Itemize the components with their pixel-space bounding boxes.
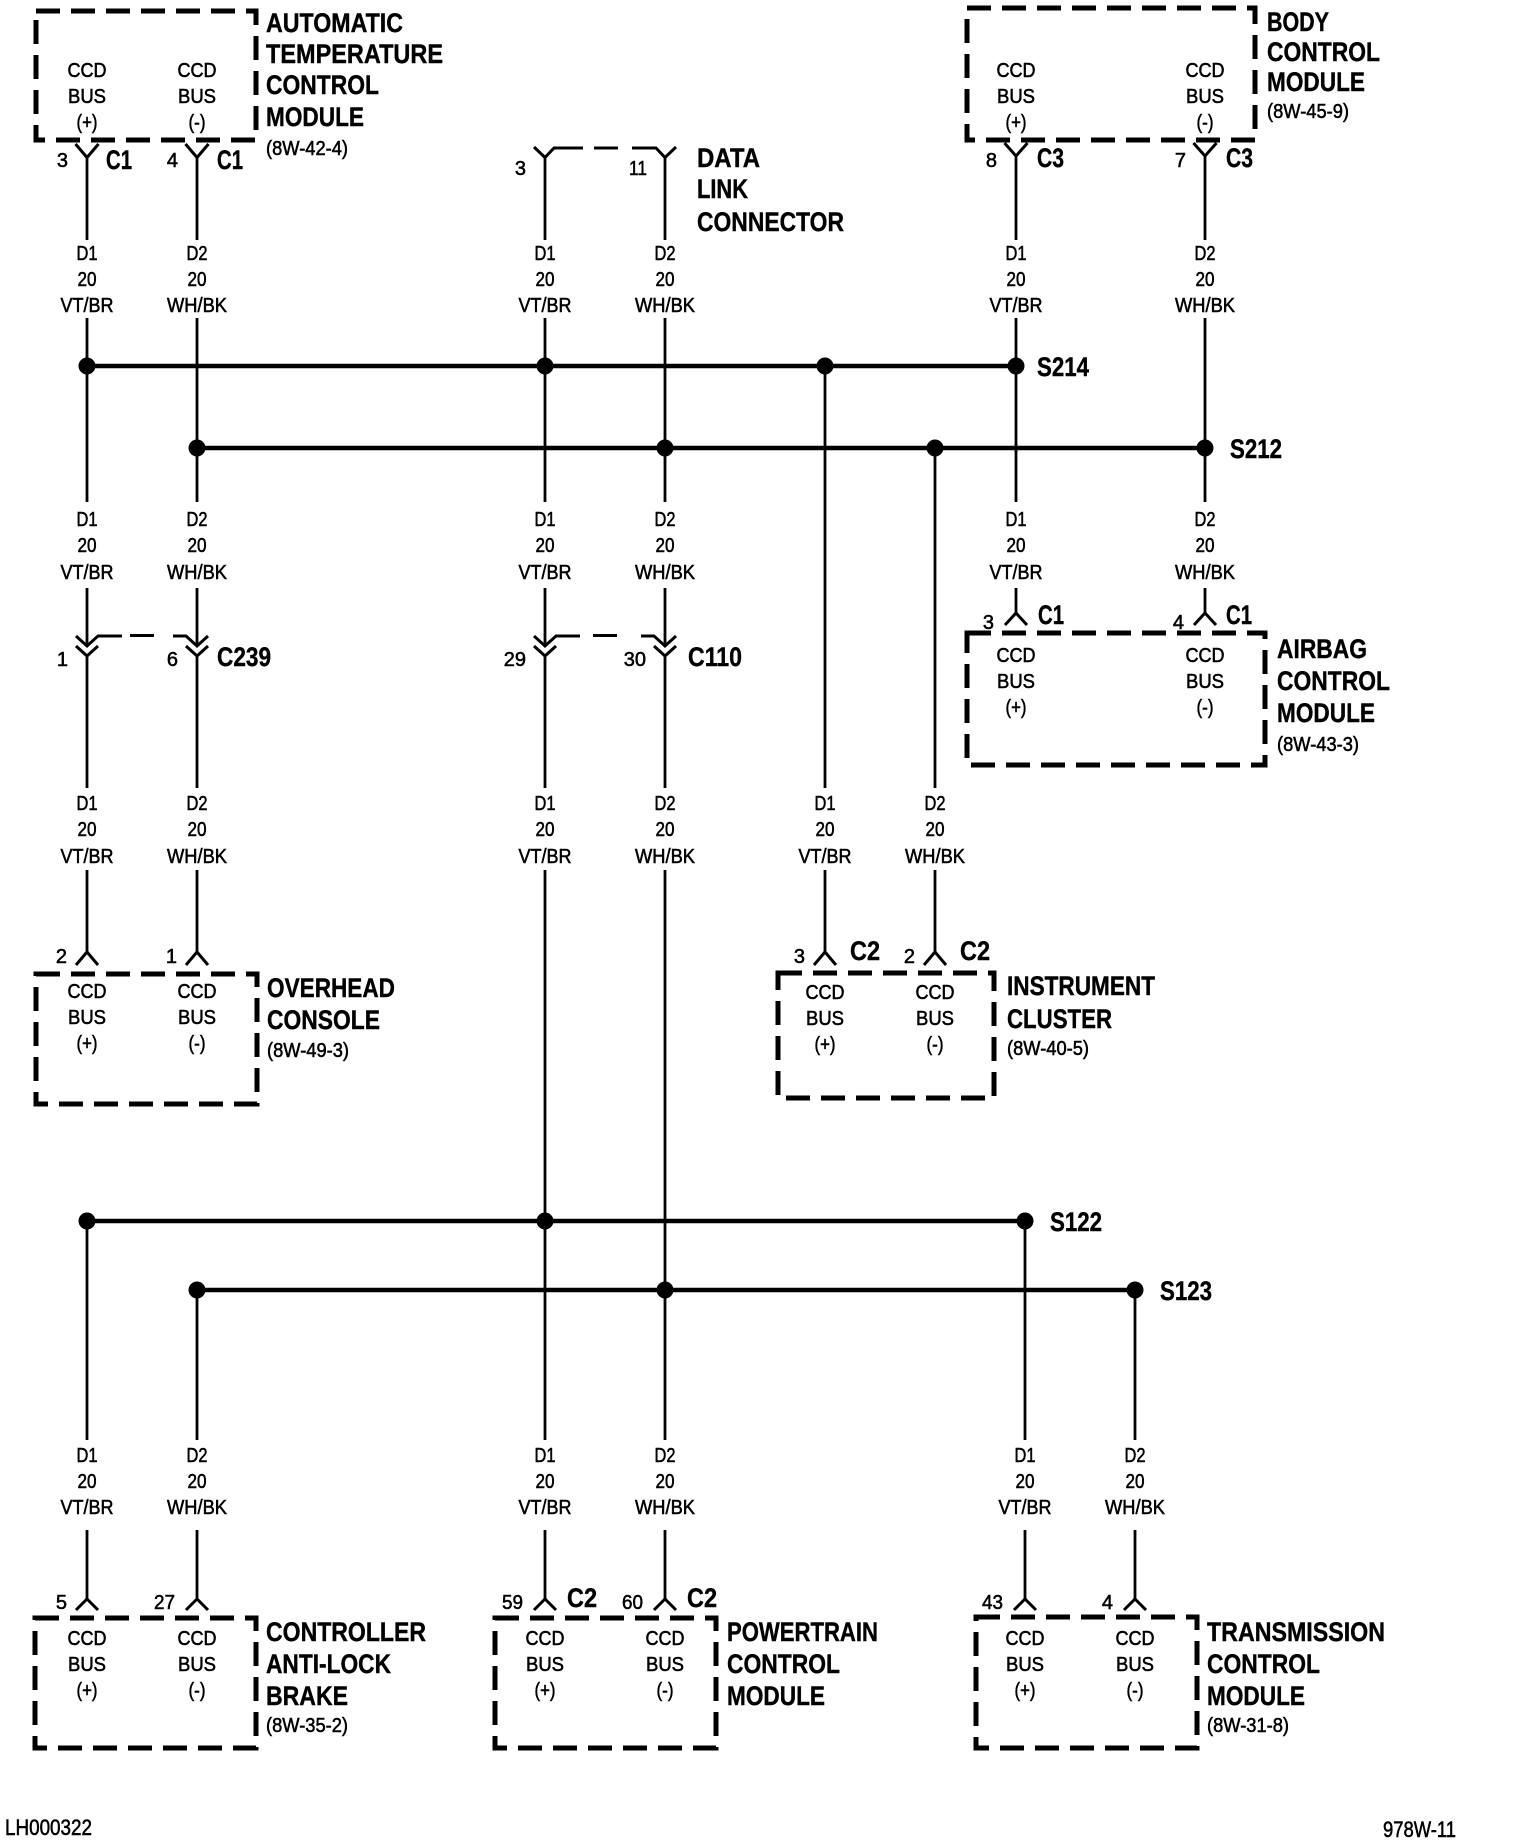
svg-text:(-): (-) [189, 1680, 206, 1702]
svg-text:(-): (-) [1127, 1680, 1144, 1702]
wire mid D2 to PCM pin 60 [664, 1530, 667, 1599]
in-line connector C239 dashed link [130, 634, 154, 637]
svg-text:BUS: BUS [997, 671, 1035, 693]
svg-text:(+): (+) [1006, 112, 1027, 134]
svg-text:AUTOMATIC: AUTOMATIC [266, 8, 403, 38]
svg-text:(+): (+) [1015, 1680, 1036, 1702]
wire BCM D1 stem [1015, 156, 1018, 240]
svg-text:(-): (-) [927, 1034, 944, 1056]
svg-text:3: 3 [57, 150, 68, 172]
svg-text:CCD: CCD [178, 60, 217, 82]
wire ATC D1 stem [86, 158, 89, 241]
svg-text:8: 8 [986, 150, 997, 172]
svg-text:VT/BR: VT/BR [519, 846, 572, 868]
wire mid D1 to PCM pin 59 [544, 1530, 547, 1599]
connector C2 pin 2 (cluster D2) [924, 952, 946, 965]
svg-text:CCD: CCD [646, 1628, 685, 1650]
svg-text:1: 1 [166, 946, 177, 968]
svg-text:C3: C3 [1037, 143, 1064, 173]
svg-text:C2: C2 [567, 1583, 597, 1613]
svg-text:C1: C1 [217, 145, 243, 175]
svg-text:(+): (+) [77, 1680, 98, 1702]
svg-text:CCD: CCD [68, 1628, 107, 1650]
svg-text:C239: C239 [217, 642, 271, 672]
svg-text:BUS: BUS [806, 1008, 844, 1030]
svg-text:WH/BK: WH/BK [635, 562, 696, 584]
wire left D1 to C239 [86, 588, 89, 645]
svg-text:AIRBAG: AIRBAG [1277, 634, 1367, 664]
svg-text:LINK: LINK [697, 174, 748, 204]
svg-text:BUS: BUS [68, 1654, 106, 1676]
module box: TRANSMISSION CONTROL MODULE [976, 1617, 1197, 1748]
svg-text:D1: D1 [77, 793, 98, 815]
svg-text:CCD: CCD [1116, 1628, 1155, 1650]
svg-text:WH/BK: WH/BK [167, 562, 228, 584]
svg-text:(+): (+) [77, 1033, 98, 1055]
svg-text:VT/BR: VT/BR [990, 295, 1043, 317]
svg-text:20: 20 [1016, 1471, 1035, 1493]
svg-text:30: 30 [624, 649, 646, 671]
junction dot S214 at cluster D1 tap [817, 358, 834, 375]
svg-text:BUS: BUS [1186, 671, 1224, 693]
wire left D2 below C239 [196, 656, 199, 788]
svg-text:20: 20 [188, 269, 207, 291]
svg-text:BUS: BUS [646, 1654, 684, 1676]
wire left D1 below S122 [86, 1221, 89, 1440]
svg-text:(8W-45-9): (8W-45-9) [1267, 101, 1349, 123]
splice S123 bus line [197, 1288, 1135, 1293]
svg-text:D1: D1 [77, 243, 98, 265]
svg-text:D1: D1 [535, 1445, 556, 1467]
junction dot S214 at DLC D1 [537, 358, 554, 375]
svg-text:CONTROLLER: CONTROLLER [266, 1617, 426, 1647]
svg-text:LH000322: LH000322 [5, 1815, 92, 1840]
svg-text:CCD: CCD [1186, 645, 1225, 667]
svg-text:3: 3 [515, 158, 526, 180]
svg-text:WH/BK: WH/BK [167, 295, 228, 317]
junction dot S214 at ATC D1 [79, 358, 96, 375]
svg-text:20: 20 [78, 1471, 97, 1493]
wire cluster D2 to pin 2 [934, 870, 937, 952]
svg-text:MODULE: MODULE [1277, 698, 1375, 728]
svg-text:D2: D2 [187, 509, 208, 531]
svg-text:BODY: BODY [1267, 7, 1329, 37]
wire mid D1 below S214 [544, 366, 547, 502]
svg-text:CONTROL: CONTROL [266, 70, 379, 100]
svg-text:C2: C2 [687, 1583, 717, 1613]
svg-text:WH/BK: WH/BK [1175, 295, 1236, 317]
junction dot S123 at mid D2 [657, 1282, 674, 1299]
wire ATC D2 stem [196, 158, 199, 241]
junction dot S212 at cluster D2 tap [927, 440, 944, 457]
svg-text:INSTRUMENT: INSTRUMENT [1007, 971, 1155, 1001]
wire right D1 to airbag pin 3 [1015, 588, 1018, 613]
module box: AUTOMATIC TEMPERATURE CONTROL MODULE [36, 11, 256, 140]
svg-text:CONTROL: CONTROL [1207, 1649, 1320, 1679]
svg-text:(8W-31-8): (8W-31-8) [1207, 1715, 1289, 1737]
svg-text:BUS: BUS [1006, 1654, 1044, 1676]
svg-text:7: 7 [1175, 150, 1186, 172]
svg-text:(+): (+) [815, 1034, 836, 1056]
svg-text:BUS: BUS [997, 86, 1035, 108]
svg-text:20: 20 [1007, 269, 1026, 291]
wire cluster D1 to pin 3 [824, 870, 827, 952]
svg-text:D1: D1 [535, 793, 556, 815]
svg-text:20: 20 [656, 1471, 675, 1493]
svg-text:BUS: BUS [178, 86, 216, 108]
wire mid D1 to C110 [544, 588, 547, 645]
connector pin 5 (CAB D1) [76, 1599, 98, 1610]
svg-text:D2: D2 [655, 793, 676, 815]
wire DLC D1 to splice S214 [544, 318, 547, 366]
connector C1 pin 3 (airbag D1) [1005, 613, 1027, 625]
svg-text:C1: C1 [1038, 600, 1064, 630]
svg-text:S122: S122 [1050, 1207, 1102, 1237]
connector pin 27 (CAB D2) [186, 1599, 208, 1610]
svg-text:20: 20 [1007, 535, 1026, 557]
svg-text:CONNECTOR: CONNECTOR [697, 207, 844, 237]
svg-text:CCD: CCD [178, 1628, 217, 1650]
svg-text:D2: D2 [655, 243, 676, 265]
svg-text:MODULE: MODULE [727, 1681, 825, 1711]
svg-text:(8W-40-5): (8W-40-5) [1007, 1038, 1089, 1060]
svg-text:BUS: BUS [916, 1008, 954, 1030]
svg-text:27: 27 [154, 1592, 175, 1614]
svg-text:CONSOLE: CONSOLE [267, 1005, 380, 1035]
wire left D2 to C239 [196, 588, 199, 645]
svg-text:C110: C110 [688, 642, 742, 672]
svg-text:D2: D2 [187, 793, 208, 815]
svg-text:CCD: CCD [997, 60, 1036, 82]
module box: POWERTRAIN CONTROL MODULE [495, 1618, 716, 1748]
in-line connector C239 pin 1 chevrons [76, 636, 122, 646]
svg-text:20: 20 [536, 819, 555, 841]
connector pin 1 (console D2) [186, 952, 208, 965]
wire cluster D2 drop from S212 [934, 448, 937, 788]
svg-text:BUS: BUS [178, 1654, 216, 1676]
connector C1 pin 4 (airbag D2) [1194, 613, 1216, 625]
wire right D2 below S212 to airbag [1204, 448, 1207, 502]
svg-text:CCD: CCD [1186, 60, 1225, 82]
svg-text:CLUSTER: CLUSTER [1007, 1004, 1112, 1034]
junction dot S122 end [1017, 1213, 1034, 1230]
svg-text:WH/BK: WH/BK [1105, 1497, 1166, 1519]
svg-text:D1: D1 [77, 509, 98, 531]
splice S122 bus line [87, 1219, 1025, 1224]
svg-text:POWERTRAIN: POWERTRAIN [727, 1617, 878, 1647]
svg-text:BUS: BUS [68, 1007, 106, 1029]
wire BCM D2 to splice S212 [1204, 318, 1207, 448]
svg-text:5: 5 [56, 1592, 67, 1614]
splice S212 bus line [197, 446, 1205, 451]
svg-text:20: 20 [656, 269, 675, 291]
connector pin 2 (console D1) [76, 952, 98, 965]
svg-text:2: 2 [904, 946, 915, 968]
svg-text:BUS: BUS [1186, 86, 1224, 108]
svg-text:VT/BR: VT/BR [519, 295, 572, 317]
svg-text:6: 6 [167, 649, 178, 671]
svg-text:VT/BR: VT/BR [61, 295, 114, 317]
svg-text:20: 20 [188, 1471, 207, 1493]
splice S214 bus line [87, 364, 1016, 369]
in-line connector C239 pin 6 chevrons [173, 636, 208, 646]
in-line connector C110 pin 30 chevrons [641, 636, 676, 646]
wire DLC D1 stem [544, 158, 547, 241]
svg-text:978W-11: 978W-11 [1383, 1817, 1456, 1842]
svg-text:C2: C2 [850, 936, 880, 966]
svg-text:(+): (+) [535, 1680, 556, 1702]
wire mid D2 below S123 [664, 1290, 667, 1440]
svg-text:VT/BR: VT/BR [61, 1497, 114, 1519]
svg-text:4: 4 [1102, 1592, 1113, 1614]
svg-text:TEMPERATURE: TEMPERATURE [266, 39, 443, 69]
svg-text:MODULE: MODULE [266, 102, 364, 132]
connector C3 pin 7 (BCM D2) [1194, 143, 1217, 156]
wire BCM D1 to splice S214 [1015, 318, 1018, 366]
svg-text:20: 20 [78, 269, 97, 291]
svg-text:(+): (+) [77, 112, 98, 134]
junction dot S212 end [1197, 440, 1214, 457]
svg-text:D2: D2 [1195, 243, 1216, 265]
wire BCM D2 stem [1204, 156, 1207, 240]
svg-text:20: 20 [926, 819, 945, 841]
svg-text:(+): (+) [1006, 697, 1027, 719]
svg-text:VT/BR: VT/BR [61, 846, 114, 868]
svg-text:1: 1 [57, 649, 68, 671]
svg-text:4: 4 [167, 150, 178, 172]
svg-text:20: 20 [536, 535, 555, 557]
svg-text:WH/BK: WH/BK [635, 295, 696, 317]
svg-text:D2: D2 [925, 793, 946, 815]
wire left D2 to console pin 1 [196, 870, 199, 952]
svg-text:D2: D2 [655, 509, 676, 531]
wire mid D2 below S212 [664, 448, 667, 502]
svg-text:(-): (-) [189, 1033, 206, 1055]
svg-text:20: 20 [816, 819, 835, 841]
svg-text:WH/BK: WH/BK [167, 846, 228, 868]
svg-text:WH/BK: WH/BK [635, 846, 696, 868]
svg-text:S212: S212 [1230, 434, 1282, 464]
wire mid D2 below C110 [664, 656, 667, 788]
svg-text:VT/BR: VT/BR [61, 562, 114, 584]
connector C2 pin 60 (PCM D2) [654, 1599, 676, 1610]
svg-text:WH/BK: WH/BK [635, 1497, 696, 1519]
svg-text:20: 20 [656, 535, 675, 557]
svg-text:CONTROL: CONTROL [1277, 666, 1390, 696]
svg-text:29: 29 [504, 649, 526, 671]
svg-text:D1: D1 [1006, 243, 1027, 265]
svg-text:20: 20 [536, 1471, 555, 1493]
svg-text:MODULE: MODULE [1207, 1681, 1305, 1711]
svg-text:WH/BK: WH/BK [167, 1497, 228, 1519]
junction dot S122 at mid D1 [537, 1213, 554, 1230]
connector C2 pin 3 (cluster D1) [814, 952, 836, 965]
wire left D1 below C239 [86, 656, 89, 788]
svg-text:20: 20 [536, 269, 555, 291]
connector C1 pin 3 (ATC D1) [76, 144, 99, 158]
DATA LINK CONNECTOR symbol pins 3 and 11 [534, 147, 583, 158]
svg-text:D2: D2 [187, 1445, 208, 1467]
svg-text:CCD: CCD [916, 982, 955, 1004]
svg-text:OVERHEAD: OVERHEAD [267, 973, 395, 1003]
wire left D2 to CAB pin 27 [196, 1530, 199, 1599]
svg-text:TRANSMISSION: TRANSMISSION [1207, 1617, 1385, 1647]
svg-text:CCD: CCD [806, 982, 845, 1004]
wire left D2 below S212 [196, 448, 199, 502]
svg-text:D2: D2 [1125, 1445, 1146, 1467]
wire left D1 to console pin 2 [86, 870, 89, 952]
svg-text:D1: D1 [1006, 509, 1027, 531]
svg-text:WH/BK: WH/BK [905, 846, 966, 868]
svg-text:20: 20 [78, 819, 97, 841]
svg-text:3: 3 [794, 946, 805, 968]
svg-text:59: 59 [502, 1592, 523, 1614]
junction dot S123 end [1127, 1282, 1144, 1299]
wire left D1 below S214 [86, 366, 89, 502]
svg-text:D2: D2 [187, 243, 208, 265]
svg-text:S123: S123 [1160, 1276, 1212, 1306]
svg-text:VT/BR: VT/BR [990, 562, 1043, 584]
svg-text:D1: D1 [535, 509, 556, 531]
svg-text:CONTROL: CONTROL [1267, 37, 1380, 67]
svg-text:S214: S214 [1037, 352, 1089, 382]
wire cluster D1 drop from S214 [824, 366, 827, 788]
svg-text:VT/BR: VT/BR [799, 846, 852, 868]
svg-text:20: 20 [188, 819, 207, 841]
svg-text:(8W-42-4): (8W-42-4) [266, 138, 348, 160]
svg-text:(-): (-) [1197, 112, 1214, 134]
svg-text:WH/BK: WH/BK [1175, 562, 1236, 584]
svg-text:BUS: BUS [1116, 1654, 1154, 1676]
svg-text:(8W-43-3): (8W-43-3) [1277, 734, 1359, 756]
junction dot S212 at DLC D2 [657, 440, 674, 457]
wire right D1 below S214 to airbag [1015, 366, 1018, 502]
svg-text:CCD: CCD [997, 645, 1036, 667]
svg-text:BUS: BUS [178, 1007, 216, 1029]
svg-text:(-): (-) [189, 112, 206, 134]
svg-text:43: 43 [982, 1592, 1003, 1614]
svg-text:C1: C1 [106, 145, 132, 175]
wire mid D2 long run to S123 [664, 870, 667, 1290]
svg-text:CCD: CCD [1006, 1628, 1045, 1650]
wire TCM D2 below S123 [1134, 1290, 1137, 1440]
connector C1 pin 4 (ATC D2) [186, 144, 209, 158]
svg-text:DATA: DATA [697, 143, 760, 173]
svg-text:60: 60 [622, 1592, 643, 1614]
svg-text:D1: D1 [535, 243, 556, 265]
svg-text:11: 11 [629, 158, 647, 180]
wire DLC D2 to splice S212 [664, 318, 667, 448]
svg-text:VT/BR: VT/BR [519, 562, 572, 584]
in-line connector C110 pin 29 chevrons [534, 636, 580, 646]
svg-text:CCD: CCD [178, 981, 217, 1003]
svg-text:20: 20 [656, 819, 675, 841]
svg-text:(-): (-) [657, 1680, 674, 1702]
svg-text:D2: D2 [1195, 509, 1216, 531]
svg-text:20: 20 [78, 535, 97, 557]
connector C3 pin 8 (BCM D1) [1005, 143, 1028, 156]
module box: CONTROLLER ANTI-LOCK BRAKE [35, 1618, 256, 1748]
svg-text:BRAKE: BRAKE [266, 1681, 348, 1711]
wire DLC D2 stem [664, 158, 667, 241]
wire mid D1 long run to S122 [544, 870, 547, 1221]
svg-text:20: 20 [1196, 535, 1215, 557]
wire TCM D1 below S122 [1024, 1221, 1027, 1440]
svg-text:CCD: CCD [68, 981, 107, 1003]
svg-text:D1: D1 [1015, 1445, 1036, 1467]
junction dot S123 left [189, 1282, 206, 1299]
svg-text:20: 20 [188, 535, 207, 557]
wire ATC D2 to splice S212 [196, 318, 199, 448]
wire mid D1 below C110 [544, 656, 547, 788]
junction dot S214 end [1008, 358, 1025, 375]
svg-text:2: 2 [56, 946, 67, 968]
svg-text:20: 20 [1196, 269, 1215, 291]
svg-text:D1: D1 [815, 793, 836, 815]
wire TCM D1 to pin 43 [1024, 1530, 1027, 1599]
wire ATC D1 to splice S214 [86, 318, 89, 366]
wire mid D2 to C110 [664, 588, 667, 645]
svg-text:BUS: BUS [68, 86, 106, 108]
svg-text:(-): (-) [1197, 697, 1214, 719]
module box: AIRBAG CONTROL MODULE [967, 633, 1265, 765]
svg-text:MODULE: MODULE [1267, 67, 1365, 97]
svg-text:CCD: CCD [68, 60, 107, 82]
module box: BODY CONTROL MODULE [967, 8, 1255, 140]
svg-text:ANTI-LOCK: ANTI-LOCK [266, 1649, 391, 1679]
connector pin 43 (TCM D1) [1014, 1599, 1036, 1610]
svg-text:CONTROL: CONTROL [727, 1649, 840, 1679]
svg-text:20: 20 [1126, 1471, 1145, 1493]
svg-text:C3: C3 [1226, 143, 1253, 173]
in-line connector C110 dashed link [593, 634, 617, 637]
wire left D2 below S123 [196, 1290, 199, 1440]
wire mid D1 below S122 [544, 1221, 547, 1440]
svg-text:D1: D1 [77, 1445, 98, 1467]
svg-text:D2: D2 [655, 1445, 676, 1467]
svg-text:VT/BR: VT/BR [999, 1497, 1052, 1519]
svg-text:(8W-35-2): (8W-35-2) [266, 1715, 348, 1737]
wire left D1 to CAB pin 5 [86, 1530, 89, 1599]
module box: OVERHEAD CONSOLE [36, 974, 257, 1104]
module box: INSTRUMENT CLUSTER [778, 973, 994, 1098]
svg-text:C1: C1 [1226, 600, 1252, 630]
svg-text:C2: C2 [960, 936, 990, 966]
wire TCM D2 to pin 4 [1134, 1530, 1137, 1599]
wire right D2 to airbag pin 4 [1204, 588, 1207, 613]
svg-text:CCD: CCD [526, 1628, 565, 1650]
connector C2 pin 59 (PCM D1) [534, 1599, 556, 1610]
junction dot S122 left [79, 1213, 96, 1230]
svg-text:VT/BR: VT/BR [519, 1497, 572, 1519]
connector pin 4 (TCM D2) [1124, 1599, 1146, 1610]
svg-text:BUS: BUS [526, 1654, 564, 1676]
junction dot S212 at ATC D2 [189, 440, 206, 457]
svg-text:(8W-49-3): (8W-49-3) [267, 1040, 349, 1062]
